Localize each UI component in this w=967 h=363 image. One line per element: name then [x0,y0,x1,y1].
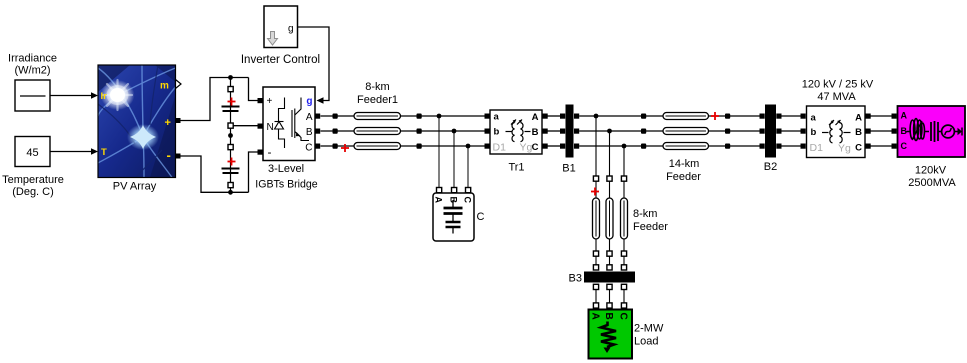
node N junction [228,133,233,138]
svg-text:+: + [267,96,273,107]
wire phase C down to C bank [467,146,469,188]
svg-text:(W/m2): (W/m2) [14,65,50,77]
PV Array block [98,65,176,178]
svg-text:A: A [901,111,908,121]
svg-text:(Deg. C): (Deg. C) [12,186,54,198]
connector square Feeder2 A out [725,114,730,119]
label 2-MW Load [634,323,664,348]
connector square Feeder2 B in [641,129,646,134]
wire Inverter Control g to bridge g [298,27,330,104]
47MVA port A [866,114,871,119]
node: DC- junction [228,190,233,195]
wire Tr1 A to B1 [548,115,561,117]
Tr1 port b [485,129,490,134]
op-amp / converter: 3-Level IGBTs Bridge block [263,87,315,161]
connector square Feeder1 B in [333,129,338,134]
wire PV+ to DC top rail [181,78,249,121]
bridge A port [315,114,320,119]
pi-line 14-km Feeder phase A [663,113,709,120]
label 3-Level IGBTs Bridge [255,163,318,191]
bridge + port [258,98,263,103]
svg-text:8-km: 8-km [365,81,389,93]
wire bridge C to Feeder1 C [321,145,355,147]
wire vfeeder C square to pill [623,181,625,198]
wire 47MVA A to source [871,115,892,117]
wire B1 A to Feeder2 [579,115,663,117]
svg-text:A: A [532,112,539,123]
voltage label red + (C1) [228,98,236,106]
wire vfeeder C pill to B3 [623,239,625,266]
bridge inner IGBT [292,98,309,141]
svg-text:3-Level: 3-Level [268,163,304,175]
voltage label red + (C2) [228,158,236,166]
svg-text:C: C [855,143,862,154]
source 120kV 2500MVA block [892,106,966,157]
node junction B to vertical feeder [607,129,612,134]
svg-text:A: A [434,197,444,204]
svg-text:Feeder1: Feeder1 [357,94,398,106]
wire 47MVA C to source [871,145,892,147]
wire vfeeder A pill to B3 [595,239,597,266]
wire vertical feeder phase A down [595,116,597,176]
block: Irradiance input source [15,80,50,111]
svg-text:b: b [494,127,500,138]
svg-text:C: C [477,211,485,223]
connector square vfeeder C bottom [621,251,626,256]
bus B1 [560,105,579,158]
svg-text:Ir: Ir [101,91,108,102]
wire B1 C to Feeder2 [579,145,663,147]
svg-text:PV Array: PV Array [113,181,157,193]
svg-text:B3: B3 [569,273,582,285]
load port A [593,303,598,308]
svg-text:Feeder: Feeder [666,171,701,183]
wire Feeder2 C to B2 [709,145,760,147]
svg-text:C: C [532,142,539,153]
bus B3 [584,265,635,290]
svg-text:A: A [590,313,601,320]
svg-text:D1: D1 [810,142,824,154]
svg-text:Yg: Yg [838,143,851,155]
svg-text:45: 45 [26,147,38,159]
svg-text:g: g [288,24,294,35]
connector square Feeder2 C out [725,144,730,149]
svg-text:g: g [306,96,312,107]
svg-text:-: - [268,145,272,159]
Tr1 port B [543,129,548,134]
load port C [621,303,626,308]
wire bridge A to Feeder1 A [321,115,355,117]
current measurement red + phase A [711,112,719,120]
node junction A to vertical feeder [594,114,599,119]
capacitor C2 bottom port [228,183,233,188]
connector square Feeder1 C in [333,144,338,149]
wire 47MVA B to source [871,130,892,132]
connector square vfeeder B bottom [607,251,612,256]
svg-text:120 kV / 25 kV: 120 kV / 25 kV [802,79,874,91]
label 8-km Feeder vertical [633,208,668,233]
pi-line 8-km Feeder vertical phase A [593,198,600,239]
svg-text:Inverter Control: Inverter Control [241,54,320,66]
svg-text:B: B [603,313,614,320]
47MVA port C [866,144,871,149]
wire capacitor chain [230,78,232,193]
wire vertical feeder phase C down [623,146,625,176]
svg-text:14-km: 14-km [669,158,700,170]
wire vfeeder A square to pill [595,181,597,198]
label 120kV 2500MVA [908,165,956,190]
wire Irradiance to PV Ir input [50,92,98,99]
svg-text:A: A [855,113,862,124]
bridge C port [315,144,320,149]
capacitor C2 [222,169,240,174]
node junction phase C to C bank [466,144,471,149]
node: DC+ junction [228,75,233,80]
svg-text:Yg: Yg [520,142,533,154]
bridge - port [258,150,263,155]
bridge inner diode [275,98,285,149]
connector square Feeder1 C out [417,144,422,149]
svg-text:Temperature: Temperature [2,174,64,186]
label 120 kV / 25 kV 47 MVA [802,79,874,104]
Tr1 port C [543,144,548,149]
current measurement red + vfeeder A [591,188,599,196]
svg-text:m: m [160,81,169,92]
label 14-km Feeder [666,158,701,183]
svg-text:a: a [494,112,500,123]
svg-text:2-MW: 2-MW [634,323,664,335]
svg-text:B: B [306,127,313,138]
current measurement red + phase C [341,144,349,152]
svg-text:b: b [811,127,817,138]
svg-text:A: A [306,112,313,123]
svg-text:C: C [463,197,473,204]
svg-text:B: B [901,126,908,136]
svg-text:B: B [532,127,539,138]
svg-text:+: + [165,117,171,129]
wire phase B down to C bank [453,131,455,188]
wire phase A down to C bank [438,116,440,188]
svg-text:Feeder: Feeder [633,221,668,233]
bridge B port [315,129,320,134]
wire B2 B to transformer [782,130,801,132]
wire top rail to bridge + port [249,78,258,101]
svg-text:Irradiance: Irradiance [8,53,57,65]
capacitor C1 bottom port [228,123,233,128]
wire Tr1 B to B1 [548,130,561,132]
svg-text:C: C [901,141,908,151]
block: Temperature constant 45 [15,137,50,167]
connector square vfeeder A top [593,176,598,181]
label 8-km Feeder1 [357,81,398,106]
svg-text:B2: B2 [764,161,777,173]
svg-text:120kV: 120kV [915,165,947,177]
load port B [607,303,612,308]
wire 45 to PV T input [50,148,98,155]
PV m output port [176,80,182,89]
svg-text:a: a [811,113,817,124]
wire B3 B to load [609,290,611,310]
wire B3 C to load [623,290,625,310]
wire B1 B to Feeder2 [579,130,663,132]
svg-text:47 MVA: 47 MVA [817,91,856,103]
label Temperature (Deg. C) [2,174,64,198]
Inverter Control block [264,6,298,48]
capacitor C2 top port [228,145,233,150]
Tr1 port a [485,114,490,119]
47MVA winding symbol [822,120,851,143]
wire PV- to DC bottom rail [181,156,249,192]
wire Feeder1 A to Tr1 a [401,115,485,117]
connector square Feeder1 A out [417,114,422,119]
svg-text:8-km: 8-km [633,208,657,220]
svg-text:B: B [855,127,862,138]
svg-text:C: C [618,313,629,320]
PV + port [176,118,181,123]
wire N node to bridge N port [233,125,258,127]
wire vfeeder B square to pill [609,181,611,198]
wire B2 A to transformer [782,115,801,117]
capacitor C1 [222,107,240,112]
connector square Feeder2 B out [725,129,730,134]
47MVA port c [801,144,806,149]
connector square Feeder2 C in [641,144,646,149]
PV - port [176,154,181,159]
pi-line 14-km Feeder phase C [663,143,709,150]
svg-text:Load: Load [634,336,658,348]
transformer 120kV/25kV 47MVA [807,106,866,158]
47MVA port a [801,114,806,119]
capacitor C1 top port [228,87,233,92]
connector square vfeeder A bottom [593,251,598,256]
svg-text:2500MVA: 2500MVA [908,177,956,189]
wire B3 A to load [595,290,597,310]
label Irradiance (W/m2) [8,53,57,77]
wire Feeder2 A to B2 [709,115,760,117]
pi-line 8-km Feeder vertical phase C [621,198,628,239]
wire Feeder2 B to B2 [709,130,760,132]
source inner impedance and AC symbol [907,119,963,143]
transformer Tr1 [490,110,542,154]
47MVA port b [801,129,806,134]
wire bottom rail to bridge - port [249,152,258,192]
resistor load block 2-MW [589,310,633,359]
svg-text:IGBTs Bridge: IGBTs Bridge [255,179,318,191]
pi-line Feeder1 phase A [354,113,401,120]
pi-line Feeder1 phase B [354,128,401,135]
wire bridge B to Feeder1 B [321,130,355,132]
svg-text:-: - [167,148,171,163]
svg-text:T: T [101,147,107,158]
wire vertical feeder phase B down [609,131,611,176]
wire Feeder1 B to Tr1 b [401,130,485,132]
capacitor bank C block [433,188,474,242]
svg-text:Tr1: Tr1 [508,162,524,174]
node junction phase B to C bank [452,129,457,134]
Tr1 port A [543,114,548,119]
pi-line Feeder1 phase C [354,143,401,150]
connector square Feeder1 B out [417,129,422,134]
svg-text:B1: B1 [562,163,575,175]
bridge N port [258,124,263,129]
wire Feeder1 C to Tr1 c [401,145,485,147]
pi-line 14-km Feeder phase B [663,128,709,135]
wire Tr1 C to B1 [548,145,561,147]
connector square vfeeder C top [621,176,626,181]
svg-text:D1: D1 [493,142,507,154]
svg-text:C: C [305,143,312,154]
node junction phase A to C bank [437,114,442,119]
connector square Feeder2 A in [641,114,646,119]
bus B2 [760,105,782,158]
47MVA port B [866,129,871,134]
wire B2 C to transformer [782,145,801,147]
Tr1 port c [485,144,490,149]
svg-text:N: N [267,122,274,133]
connector square Feeder1 A in [333,114,338,119]
Tr1 winding symbol [506,120,531,142]
pi-line 8-km Feeder vertical phase B [606,198,613,239]
wire vfeeder B pill to B3 [609,239,611,266]
node junction C to vertical feeder [622,144,627,149]
connector square vfeeder B top [607,176,612,181]
